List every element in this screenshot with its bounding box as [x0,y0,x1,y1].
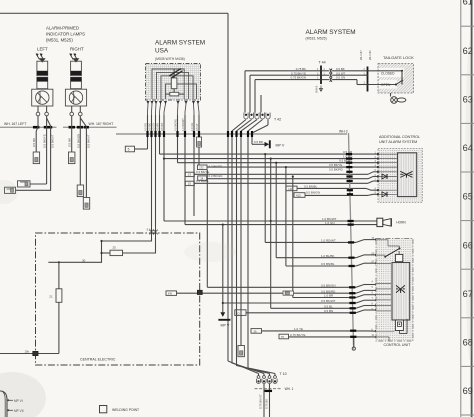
svg-text:1.0 BR: 1.0 BR [324,294,334,298]
svg-text:(M533, M525): (M533, M525) [306,37,327,41]
svg-text:ADDITIONAL CONTROL: ADDITIONAL CONTROL [379,135,420,139]
svg-text:RIGHT: RIGHT [70,47,84,52]
svg-text:1.0 RD/WT: 1.0 RD/WT [181,118,185,131]
svg-text:0.5 BK/VT: 0.5 BK/VT [86,134,90,148]
svg-text:USA: USA [155,48,169,55]
svg-text:0.3 BK/GN: 0.3 BK/GN [209,174,223,178]
svg-text:30: 30 [82,258,86,262]
svg-text:T 10: T 10 [280,372,287,376]
svg-text:0.5 BK/RD: 0.5 BK/RD [329,168,343,172]
svg-text:INDICATOR LAMPS: INDICATOR LAMPS [46,31,85,36]
svg-text:WH 167: WH 167 [359,50,363,60]
svg-text:MP V: MP V [221,324,230,328]
svg-text:1.0 RD/WT: 1.0 RD/WT [321,239,336,243]
svg-text:0.5 BN/GN: 0.5 BN/GN [321,284,336,288]
svg-text:T 42: T 42 [274,118,281,122]
svg-text:(M531, M525): (M531, M525) [46,37,73,42]
svg-text:0.5 BK: 0.5 BK [32,138,36,147]
svg-text:1.0 BL/BK: 1.0 BL/BK [321,254,335,258]
svg-text:1.0 YE: 1.0 YE [294,327,303,331]
svg-text:13: 13 [188,173,192,177]
svg-text:WH 161: WH 161 [368,50,372,60]
svg-text:172: 172 [199,166,204,170]
svg-text:0.5 BN/BL: 0.5 BN/BL [304,184,318,188]
svg-text:LEFT: LEFT [37,47,48,52]
svg-text:0.5 BK/VT: 0.5 BK/VT [51,134,55,148]
svg-text:WH 3: WH 3 [339,129,348,133]
svg-text:0.5 BK: 0.5 BK [148,123,152,131]
svg-text:WELDING POINT: WELDING POINT [112,408,139,412]
svg-text:0.75 BK/YE: 0.75 BK/YE [290,333,306,337]
svg-text:0.5 RD: 0.5 RD [144,123,148,131]
svg-text:26: 26 [254,329,258,333]
svg-text:15b: 15b [25,349,30,353]
svg-text:HORN: HORN [396,221,406,225]
svg-text:0.75 BK/YE: 0.75 BK/YE [291,71,306,75]
svg-text:TAILGATE LOCK: TAILGATE LOCK [383,55,414,60]
svg-text:KN: KN [168,292,172,296]
svg-text:ALARM SYSTEM: ALARM SYSTEM [155,40,205,47]
svg-text:CONTROL UNIT: CONTROL UNIT [384,343,412,347]
svg-text:ALARM-PRIMED: ALARM-PRIMED [46,25,79,30]
svg-text:0.5 BN/GN: 0.5 BN/GN [306,190,320,194]
svg-text:0.5 BK/YE: 0.5 BK/YE [42,134,46,148]
svg-text:0.3 BK/RD: 0.3 BK/RD [209,165,223,169]
svg-text:75: 75 [281,335,285,339]
svg-text:CLOSED: CLOSED [381,71,395,75]
svg-text:0.5 BR: 0.5 BR [156,123,160,131]
svg-text:1.0 GN: 1.0 GN [190,123,194,131]
svg-text:5: 5 [128,148,130,152]
svg-text:61: 61 [463,0,473,7]
svg-text:(M535 WITH M436): (M535 WITH M436) [155,57,185,61]
svg-text:0.5 BN: 0.5 BN [324,309,333,313]
svg-text:0.5 BK/YE: 0.5 BK/YE [329,163,342,167]
svg-text:0.5 GY: 0.5 GY [152,123,156,131]
svg-text:WH 8: WH 8 [315,85,319,93]
svg-text:0.5 BK/GN: 0.5 BK/GN [76,134,80,148]
svg-text:0.5 BK/YE: 0.5 BK/YE [174,119,178,131]
svg-text:UNIT ALARM SYSTEM: UNIT ALARM SYSTEM [379,140,417,144]
svg-text:MP V: MP V [276,143,285,147]
svg-text:15: 15 [188,182,192,186]
svg-text:WH. 1: WH. 1 [285,387,294,391]
svg-text:0.75 BK/GN: 0.75 BK/GN [291,76,306,80]
svg-text:ALARM SYSTEM: ALARM SYSTEM [306,29,356,36]
svg-text:WH. 167 LEFT: WH. 167 LEFT [4,122,26,126]
svg-text:0.5 BK/WT: 0.5 BK/WT [321,299,336,303]
svg-text:0.5 BK: 0.5 BK [68,138,72,147]
svg-text:0.75 BK: 0.75 BK [296,67,306,71]
svg-text:CENTRAL ELECTRIC: CENTRAL ELECTRIC [80,358,116,362]
svg-text:21: 21 [49,294,53,298]
svg-text:69: 69 [463,386,473,396]
svg-text:0.5 WT: 0.5 WT [160,122,164,131]
svg-text:415: 415 [296,193,301,197]
svg-text:0.75 BK: 0.75 BK [264,399,268,409]
svg-text:0.5 BN/BL: 0.5 BN/BL [321,262,335,266]
svg-text:WH. 167 RIGHT: WH. 167 RIGHT [89,122,114,126]
svg-text:0.5 VT: 0.5 VT [195,123,199,131]
svg-text:0.5 BR: 0.5 BR [254,140,263,144]
svg-text:25: 25 [113,246,117,250]
svg-text:0.75 BK/VT: 0.75 BK/VT [259,394,263,409]
svg-text:LR: LR [289,187,293,191]
svg-text:1.0 GN: 1.0 GN [325,221,335,225]
svg-text:T 44: T 44 [319,61,326,65]
svg-text:0.5 BL: 0.5 BL [324,305,333,309]
